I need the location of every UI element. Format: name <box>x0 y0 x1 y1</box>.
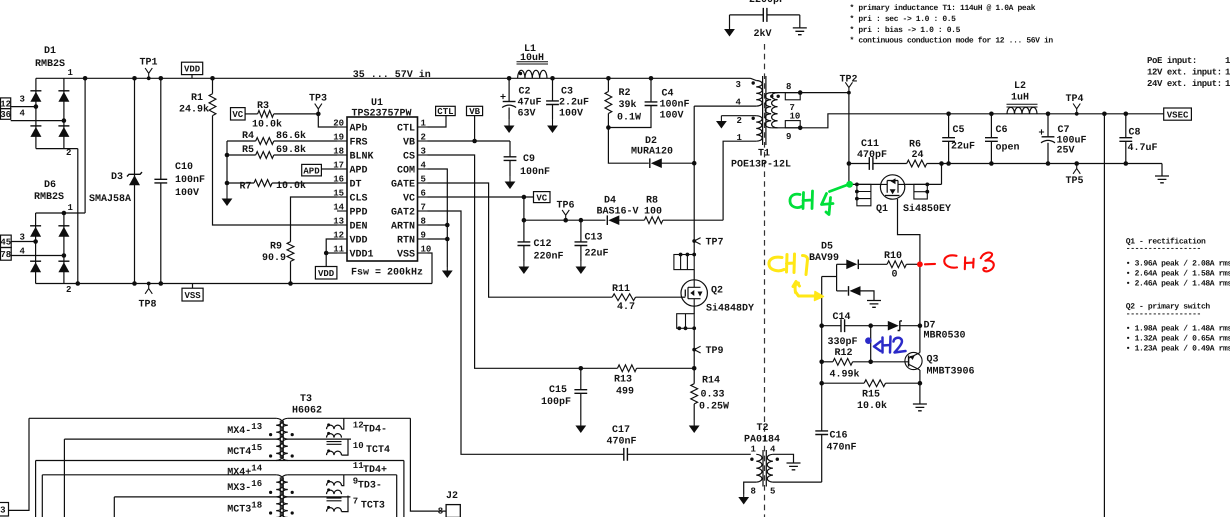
wire Q1 drain bus <box>849 183 881 185</box>
U1 pin 3 CS stub <box>418 154 428 156</box>
return arrow C3 <box>552 119 554 126</box>
svg-text:10.0k: 10.0k <box>252 119 282 131</box>
wire MX4+ drop <box>35 461 37 517</box>
svg-text:4: 4 <box>20 246 26 256</box>
wire TP3 to APb pin20 <box>318 114 337 127</box>
svg-text:• 2.64A peak / 1.58A rms: • 2.64A peak / 1.58A rms <box>1126 269 1230 278</box>
wire C14 left <box>822 325 841 327</box>
wire pair12 to D1 pin3 <box>11 106 36 108</box>
svg-text:C11: C11 <box>861 139 879 150</box>
return arrow C15 <box>580 420 582 426</box>
junction <box>472 139 477 144</box>
junction <box>925 190 929 194</box>
svg-text:R3: R3 <box>257 101 269 112</box>
wire CS net <box>428 155 618 368</box>
junction <box>925 183 929 187</box>
wire D1 minus to VSS rail <box>77 149 79 284</box>
svg-text:VSS: VSS <box>184 291 201 301</box>
wire R5 left <box>227 154 256 156</box>
junction <box>579 218 584 223</box>
wire VDD stub <box>191 75 193 79</box>
U1 pin 2 VB stub <box>418 140 428 142</box>
svg-text:C14: C14 <box>833 312 851 323</box>
svg-text:8: 8 <box>421 217 426 227</box>
T2 core <box>763 450 766 487</box>
wire MCT3 drop <box>113 497 115 517</box>
svg-text:17: 17 <box>333 161 344 171</box>
net label VDD top <box>182 62 203 74</box>
svg-text:VB: VB <box>403 138 415 149</box>
svg-text:CTL: CTL <box>397 124 415 135</box>
svg-text:10: 10 <box>790 112 801 122</box>
wire GATE net <box>428 183 613 297</box>
U1 pin 10 VSS stub <box>418 252 428 254</box>
svg-text:R10: R10 <box>884 251 902 262</box>
diode D1b <box>58 92 69 102</box>
junction <box>868 323 873 328</box>
junction <box>563 218 568 223</box>
svg-text:330pF: 330pF <box>828 337 858 348</box>
L1 polarity dot <box>519 72 522 75</box>
resistor R15 <box>864 380 885 387</box>
U1 pin 19 FRS stub <box>337 140 347 142</box>
wire gnd to Q1 source <box>941 164 943 185</box>
capacitor C9 <box>504 157 517 161</box>
svg-text:4: 4 <box>421 161 427 171</box>
svg-text:6: 6 <box>421 189 426 199</box>
return arrow T1 pin2 <box>720 116 722 121</box>
svg-text:16: 16 <box>333 175 344 185</box>
ground ycap <box>793 28 807 35</box>
junction <box>522 218 527 223</box>
svg-text:470nF: 470nF <box>827 443 857 454</box>
capacitor C5 <box>942 138 955 142</box>
wire TD3- row <box>288 474 397 476</box>
return arrow C9 <box>509 176 511 182</box>
return arrow C12 <box>523 261 525 267</box>
annotation CH4 green <box>790 185 847 215</box>
svg-text:U1: U1 <box>371 98 383 109</box>
wire C2 bottom lead <box>508 108 510 120</box>
svg-text:2: 2 <box>66 285 71 295</box>
svg-text:5: 5 <box>770 487 775 497</box>
T1 dot pin3 <box>752 81 755 84</box>
svg-text:9: 9 <box>786 132 791 142</box>
U1 pin 1 CTL stub <box>418 126 428 128</box>
capacitor C8 <box>1119 138 1132 142</box>
svg-text:3: 3 <box>20 233 25 243</box>
wire choke to row1 <box>342 418 344 429</box>
svg-text:CLS: CLS <box>350 194 368 205</box>
diode D6a <box>30 227 41 237</box>
capacitor C15 <box>574 390 587 394</box>
TVS diode D3 <box>129 175 140 185</box>
svg-text:Si4850EY: Si4850EY <box>903 203 951 215</box>
svg-text:100V: 100V <box>559 109 583 120</box>
svg-text:TCT3: TCT3 <box>361 501 385 512</box>
T1 pin8 jumper <box>785 93 800 100</box>
wire D5 link <box>822 276 837 278</box>
svg-text:14: 14 <box>251 464 262 474</box>
wire C7 bottom lead <box>1047 143 1049 164</box>
svg-text:35 ... 57V in: 35 ... 57V in <box>353 69 431 81</box>
svg-text:2: 2 <box>737 116 742 126</box>
wire T1 pin8 to TP2 <box>771 92 849 94</box>
wire stack to Q2 drain <box>693 270 695 280</box>
T2 dot pin1 <box>750 458 753 461</box>
wire C5 bottom lead <box>948 141 950 163</box>
svg-text:GATE: GATE <box>391 180 415 191</box>
choke dot <box>327 480 330 483</box>
svg-text:VDD: VDD <box>350 236 368 247</box>
wire MX3- row <box>42 474 276 476</box>
svg-text:TCT4: TCT4 <box>366 445 390 456</box>
T3 dot <box>291 511 294 514</box>
wire C3 top lead <box>552 78 554 101</box>
junction <box>132 76 137 81</box>
capacitor C2 <box>503 101 516 103</box>
svg-text:MMBT3906: MMBT3906 <box>927 367 975 378</box>
svg-text:4.7: 4.7 <box>617 302 635 313</box>
wire C14 to D7 <box>845 325 871 327</box>
svg-text:10.0k: 10.0k <box>857 400 887 412</box>
T1 primary winding pins 3-4 <box>756 81 762 107</box>
svg-text:• 1.32A peak / 0.65A rms: • 1.32A peak / 0.65A rms <box>1126 335 1230 344</box>
svg-text:-----------------: ----------------- <box>1126 310 1201 319</box>
junction <box>1074 161 1079 166</box>
svg-text:VDD1: VDD1 <box>350 250 374 261</box>
wire VDD1 pin11 <box>326 252 337 254</box>
wire COM/ARTN/RTN net <box>428 169 448 267</box>
wire T2 pin4 to gnd <box>773 454 794 463</box>
op-amp controller U1 TPS23757PW body <box>347 117 418 261</box>
capacitor C14 <box>841 319 845 332</box>
junction <box>686 253 690 257</box>
annotation CH1 yellow <box>769 254 824 301</box>
svg-text:R11: R11 <box>612 284 630 295</box>
U1 pin 8 ARTN stub <box>418 224 428 226</box>
svg-text:C13: C13 <box>585 233 603 244</box>
svg-text:C16: C16 <box>830 431 848 442</box>
wire D6 right branch <box>63 213 65 284</box>
T3 dot <box>291 491 294 494</box>
junction <box>62 211 67 216</box>
L2 core line <box>1007 104 1038 107</box>
svg-text:100V: 100V <box>660 111 684 122</box>
svg-text:8: 8 <box>751 487 756 497</box>
junction <box>939 161 944 166</box>
svg-text:* pri : bias -> 1.0 : 0.5: * pri : bias -> 1.0 : 0.5 <box>850 26 961 35</box>
bridge rectifier D6 <box>0 0 1 1</box>
wire choke to tap <box>342 439 349 455</box>
svg-text:5: 5 <box>421 175 426 185</box>
wire ycap right drop <box>799 15 801 28</box>
transistor Q1 Si4850EY <box>880 175 904 199</box>
wire R15 right <box>886 382 920 384</box>
svg-text:TP5: TP5 <box>1066 176 1084 187</box>
capacitor C16 <box>815 431 828 435</box>
junction <box>855 190 859 194</box>
svg-text:RMB2S: RMB2S <box>34 192 64 203</box>
wire MCT4 drop <box>63 439 65 517</box>
capacitor C6 <box>985 138 998 142</box>
wire D6 top <box>36 212 86 214</box>
choke core <box>327 442 342 445</box>
wire C16 to T2 pin5 <box>821 435 823 483</box>
wire T2 pin5 to C16 <box>773 481 822 483</box>
connector pins 7,8 <box>1 248 12 261</box>
wire T1 pin4 to D2 node <box>693 106 695 163</box>
capacitor C3 <box>546 101 559 105</box>
svg-text:-----------------: ----------------- <box>1126 245 1201 254</box>
svg-text:Fsw = 200kHz: Fsw = 200kHz <box>351 267 423 279</box>
svg-text:C12: C12 <box>534 239 552 250</box>
wire R14 bottom lead <box>693 404 695 420</box>
net label VB <box>467 106 483 115</box>
svg-text:470nF: 470nF <box>607 437 637 448</box>
wire secondary gnd rail <box>927 163 1162 165</box>
wire R2 bottom lead <box>607 114 609 128</box>
svg-text:1: 1 <box>751 445 757 455</box>
wire TCT3 row <box>288 496 351 498</box>
svg-text:R8: R8 <box>646 196 658 207</box>
wire D5b to gnd <box>860 291 874 301</box>
svg-text:1: 1 <box>1225 56 1230 66</box>
wire C10 bottom lead <box>160 183 162 283</box>
wire R14 top lead <box>693 368 695 383</box>
choke arcs b <box>327 490 342 494</box>
junction <box>918 381 923 386</box>
svg-text:90.9: 90.9 <box>262 253 286 264</box>
T3 line winding b <box>276 497 282 517</box>
choke arcs c <box>327 508 342 512</box>
svg-text:TP1: TP1 <box>140 58 158 69</box>
choke dot <box>327 488 330 491</box>
svg-text:ARTN: ARTN <box>391 222 415 233</box>
svg-text:R14: R14 <box>702 376 720 387</box>
T3 line winding b <box>276 439 282 460</box>
svg-text:0.1W: 0.1W <box>617 113 641 124</box>
junction <box>606 125 611 130</box>
T3 line winding a <box>276 475 282 497</box>
wire ARTN pin8 <box>428 224 448 226</box>
junction <box>62 118 67 123</box>
resistor R11 <box>612 294 635 301</box>
T3 device winding b <box>282 439 288 460</box>
svg-text:MBR0530: MBR0530 <box>924 331 966 342</box>
junction <box>1124 161 1129 166</box>
junction <box>159 281 164 286</box>
svg-text:D3: D3 <box>111 172 123 183</box>
junction <box>649 76 654 81</box>
svg-text:36: 36 <box>0 110 11 120</box>
wire switch node down <box>693 163 695 254</box>
wire D5 common <box>836 264 838 291</box>
T2 dot pin4 <box>776 458 779 461</box>
svg-text:R15: R15 <box>862 390 880 401</box>
testpoint TP1 <box>145 68 152 78</box>
svg-text:10: 10 <box>353 441 364 451</box>
wire MX4+/TD4+ row <box>36 460 404 462</box>
wire C14 node to R12 node <box>870 326 872 362</box>
svg-text:open: open <box>996 143 1020 154</box>
svg-text:R1: R1 <box>191 93 203 104</box>
U1 pin 20 APb stub <box>337 126 347 128</box>
T3 dot <box>269 511 272 514</box>
resistor R13 <box>618 365 637 372</box>
resistor R5 <box>256 152 274 159</box>
svg-text:TP6: TP6 <box>557 201 575 212</box>
svg-text:VDD: VDD <box>184 65 201 75</box>
U1 pin 17 APD stub <box>337 168 347 170</box>
choke core <box>327 498 342 501</box>
capacitor 2200pF <box>763 8 767 22</box>
svg-text:3: 3 <box>20 95 25 105</box>
svg-text:TP9: TP9 <box>706 346 724 357</box>
resistor R10 <box>887 261 906 268</box>
junction <box>819 381 824 386</box>
svg-text:16: 16 <box>251 479 262 489</box>
svg-text:D6: D6 <box>44 180 56 191</box>
net label VC left <box>231 108 246 120</box>
wire R4 left <box>227 140 256 142</box>
svg-text:25V: 25V <box>1057 146 1075 157</box>
wire choke to row1 <box>342 475 344 486</box>
wire RTN pin9 <box>428 238 448 240</box>
U1 pin 14 PPD stub <box>337 210 347 212</box>
svg-text:C2: C2 <box>519 87 531 98</box>
transistor Q2 Si4848DY <box>681 280 707 306</box>
svg-text:Q2: Q2 <box>711 286 723 297</box>
junction <box>324 251 329 256</box>
U1 pin 16 DT stub <box>337 182 347 184</box>
testpoint TP6 <box>562 210 569 220</box>
junction <box>684 326 688 330</box>
wire MX4- row <box>29 417 276 419</box>
wire R2 top lead <box>607 78 609 91</box>
svg-text:220nF: 220nF <box>534 252 564 263</box>
choke dot <box>327 506 330 509</box>
svg-text:R4: R4 <box>242 131 254 142</box>
junction <box>989 161 994 166</box>
wire VB to C9 <box>509 141 511 157</box>
T1 sec dot B <box>777 95 780 98</box>
wire T1 pin1 to R8 <box>723 141 756 220</box>
wire Q2 source to stack <box>693 306 695 314</box>
resistor R2 <box>605 92 612 114</box>
wire R4 to FRS pin19 <box>274 140 337 142</box>
svg-text:MURA120: MURA120 <box>631 147 673 158</box>
junction <box>445 237 450 242</box>
junction <box>819 323 824 328</box>
T3 dot <box>269 491 272 494</box>
wire D3 branch <box>134 78 136 283</box>
svg-text:• 2.46A peak / 1.48A rms: • 2.46A peak / 1.48A rms <box>1126 279 1230 288</box>
C7 plus <box>1039 129 1044 134</box>
svg-text:0.33: 0.33 <box>701 390 725 401</box>
wire VSS pin10 <box>428 253 433 284</box>
svg-text:TD4-: TD4- <box>363 425 387 436</box>
wire C6 bottom lead <box>990 141 992 163</box>
diode D5a BAV99 <box>846 260 857 270</box>
junction <box>868 360 873 365</box>
svg-text:C15: C15 <box>549 385 567 396</box>
wire to D5a <box>837 263 848 265</box>
capacitor C10 <box>154 179 167 183</box>
junction <box>522 195 527 200</box>
svg-text:VC: VC <box>232 110 243 120</box>
resistor R9 <box>287 242 294 262</box>
junction <box>1046 161 1051 166</box>
svg-text:10.0k: 10.0k <box>276 180 306 192</box>
svg-text:1: 1 <box>68 203 74 213</box>
net label VDD bottom <box>315 267 337 280</box>
junction <box>76 281 81 286</box>
choke arcs a <box>327 425 342 429</box>
svg-text:63V: 63V <box>518 109 536 120</box>
svg-text:100: 100 <box>644 207 662 218</box>
svg-text:1: 1 <box>1225 68 1230 78</box>
svg-text:78: 78 <box>0 250 11 260</box>
svg-text:45: 45 <box>0 238 11 248</box>
svg-text:C6: C6 <box>996 125 1008 136</box>
svg-text:3: 3 <box>421 147 426 157</box>
testpoint TP7 <box>694 238 700 245</box>
svg-text:0: 0 <box>892 270 898 281</box>
junction <box>798 90 803 95</box>
svg-text:R13: R13 <box>614 375 632 386</box>
junction <box>798 126 803 131</box>
wire VB box stub <box>474 116 476 141</box>
T3 device winding b <box>282 497 288 517</box>
T3 dot <box>291 433 294 436</box>
T1 pin9 jumper <box>785 121 800 128</box>
wire VSEC to load connector <box>1103 114 1105 517</box>
svg-text:BAS16-V: BAS16-V <box>597 207 639 218</box>
wire R10 to gate node <box>906 263 920 265</box>
wire C15 top lead <box>580 368 582 389</box>
wire Q1 source bus <box>904 183 941 185</box>
svg-text:H6062: H6062 <box>292 406 322 417</box>
U1 pin 7 GAT2 stub <box>418 210 428 212</box>
svg-text:R2: R2 <box>619 88 631 99</box>
U1 pin 15 CLS stub <box>337 196 347 198</box>
capacitor C7 <box>1042 136 1055 138</box>
wire gate node down <box>919 264 921 352</box>
svg-text:18: 18 <box>251 501 262 511</box>
svg-text:22uF: 22uF <box>951 142 975 153</box>
junction <box>946 161 951 166</box>
T3 dot <box>269 454 272 457</box>
svg-text:• 1.23A peak / 0.49A rms: • 1.23A peak / 0.49A rms <box>1126 345 1230 354</box>
svg-text:VSEC: VSEC <box>1167 110 1189 120</box>
svg-text:R7: R7 <box>240 182 252 193</box>
connector pins 3,6 <box>1 109 11 120</box>
diode D1d <box>58 127 69 137</box>
junction <box>692 161 697 166</box>
svg-text:499: 499 <box>616 387 634 398</box>
svg-text:CTL: CTL <box>437 107 453 117</box>
junction <box>692 326 696 330</box>
svg-text:C17: C17 <box>612 425 630 436</box>
junction <box>159 76 164 81</box>
junction <box>33 239 38 244</box>
svg-text:13: 13 <box>251 422 262 432</box>
svg-text:TP3: TP3 <box>309 94 327 105</box>
wire TD4- row <box>288 417 411 419</box>
svg-text:2kV: 2kV <box>754 28 772 40</box>
wire MCT4 row <box>64 438 276 440</box>
